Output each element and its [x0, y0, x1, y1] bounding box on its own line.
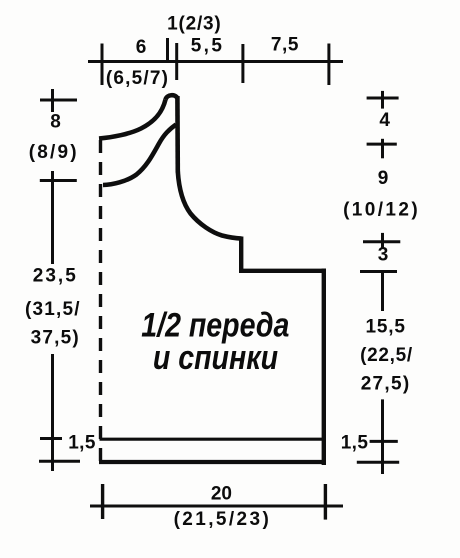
right dimension column [381, 91, 384, 109]
fold dashed line [99, 140, 102, 468]
svg-text:(8/9): (8/9) [29, 142, 79, 163]
shoulder cap [166, 95, 178, 99]
svg-text:5,5: 5,5 [191, 36, 225, 57]
top dimension line [88, 60, 343, 63]
shoulder strap right edge [175, 96, 180, 173]
svg-text:(31,5/: (31,5/ [25, 299, 81, 320]
hem bottom line [99, 460, 326, 464]
bottom dimension line [90, 505, 343, 508]
svg-text:1(2/3): 1(2/3) [167, 14, 221, 35]
svg-text:1,5: 1,5 [68, 433, 96, 454]
top tick x=167.5 [166, 38, 169, 62]
top tick x=328.9 [327, 44, 330, 86]
svg-text:37,5): 37,5) [31, 328, 80, 349]
svg-text:9: 9 [378, 168, 390, 189]
svg-text:27,5): 27,5) [361, 374, 411, 395]
armhole curve [178, 172, 242, 239]
svg-text:и спинки: и спинки [153, 339, 278, 377]
right side edge [322, 269, 326, 466]
svg-text:(22,5/: (22,5/ [360, 345, 413, 366]
svg-text:8: 8 [50, 112, 62, 133]
svg-text:3: 3 [378, 244, 390, 265]
svg-text:15,5: 15,5 [366, 317, 406, 338]
top tick x=102 [101, 44, 104, 86]
svg-text:7,5: 7,5 [271, 35, 299, 56]
wire [39, 38, 400, 520]
top tick x=242.9 [241, 44, 244, 83]
svg-text:6: 6 [136, 37, 148, 58]
underarm step [241, 237, 326, 271]
svg-text:4: 4 [379, 110, 391, 131]
left dimension column [51, 89, 54, 112]
svg-text:(6,5/7): (6,5/7) [106, 68, 169, 89]
svg-text:23,5: 23,5 [33, 266, 78, 287]
hem top line [100, 438, 325, 441]
svg-text:20: 20 [211, 484, 232, 505]
svg-text:(21,5/23): (21,5/23) [174, 509, 272, 530]
front neckline curve [103, 125, 176, 186]
top tick x=176.7 [175, 43, 178, 80]
svg-text:1,5: 1,5 [341, 433, 369, 454]
back neckline curve [99, 100, 166, 139]
svg-text:(10/12): (10/12) [343, 200, 420, 221]
